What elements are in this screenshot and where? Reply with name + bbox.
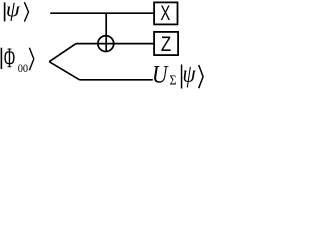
wire bell lower diagonal [49,62,79,80]
gate X box [154,2,177,24]
wire CNOT control vertical [105,13,107,51]
node Phi00 label |Phi00> [1,44,34,75]
CNOT target oplus [98,36,114,52]
wire top qubit [50,12,154,14]
svg-text:Φ: Φ [4,44,15,75]
node output label U_Sigma |psi> [152,61,203,88]
svg-text:U: U [152,62,169,89]
gate Z box [154,32,178,55]
svg-text:ψ: ψ [183,61,196,88]
svg-text:Z: Z [161,31,171,56]
svg-text:X: X [160,2,170,25]
node psi-input label |psi> [4,0,29,22]
wire second qubit [76,43,154,45]
svg-text:ψ: ψ [6,0,21,22]
wire bottom qubit [80,79,153,81]
svg-text:Σ: Σ [170,72,177,87]
svg-text:00: 00 [18,61,28,75]
wire bell upper diagonal [49,44,76,62]
